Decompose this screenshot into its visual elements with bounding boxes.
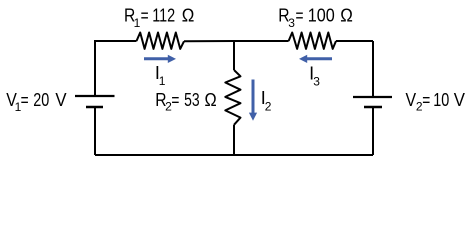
svg-text:20: 20 (33, 90, 49, 110)
label I3 (309, 64, 320, 89)
svg-text:=: = (296, 5, 304, 26)
current arrow I3 (299, 55, 332, 63)
label R3 value (278, 5, 353, 30)
svg-text:=: = (171, 90, 179, 110)
wire top-left segment (95, 41, 137, 42)
resistor R1 (137, 33, 185, 49)
wire left lower (94, 108, 96, 155)
current arrow I2 (249, 80, 257, 121)
svg-text:=: = (422, 90, 430, 110)
label I1 (155, 63, 166, 88)
current arrow I1 (144, 55, 176, 63)
svg-text:53: 53 (184, 90, 200, 110)
svg-text:10: 10 (433, 90, 449, 110)
svg-text:Ω: Ω (182, 5, 195, 26)
wire bottom (95, 154, 373, 156)
svg-text:V: V (55, 90, 66, 110)
svg-text:V: V (454, 90, 465, 110)
svg-text:V: V (406, 90, 417, 110)
wire middle upper (233, 41, 235, 70)
resistor R2 (225, 70, 240, 125)
label I2 (261, 88, 272, 114)
svg-text:Ω: Ω (205, 90, 217, 110)
wire left upper (94, 41, 96, 95)
battery V2 (353, 97, 392, 107)
battery V1 (75, 96, 115, 107)
svg-text:=: = (141, 5, 149, 26)
label V1 value (6, 90, 66, 114)
wire right lower (372, 108, 374, 155)
resistor R3 (289, 33, 336, 49)
wire right upper (372, 41, 374, 96)
svg-text:100: 100 (308, 5, 335, 26)
svg-text:Ω: Ω (340, 5, 353, 26)
wire top-middle segment (184, 40, 289, 42)
label R2 value (155, 90, 216, 114)
svg-text:3: 3 (288, 16, 295, 30)
wire middle lower (233, 125, 235, 155)
svg-text:2: 2 (265, 100, 272, 114)
svg-text:=: = (21, 90, 29, 110)
svg-text:3: 3 (313, 75, 320, 89)
svg-text:1: 1 (134, 16, 141, 30)
svg-text:112: 112 (152, 5, 175, 26)
svg-text:1: 1 (159, 74, 166, 88)
wire top-right segment (336, 40, 373, 42)
label R1 value (124, 5, 195, 30)
label V2 value (406, 90, 465, 114)
